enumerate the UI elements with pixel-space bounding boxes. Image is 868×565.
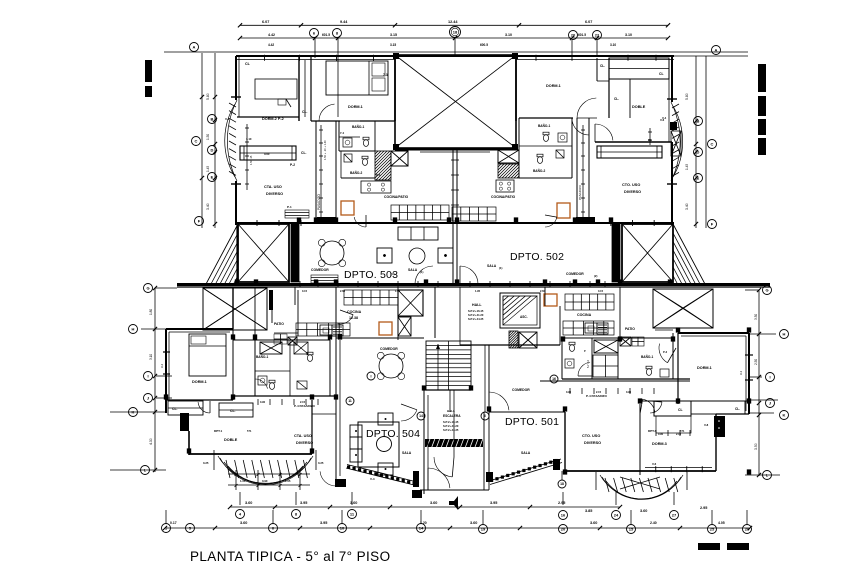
grid bubble L left (141, 466, 150, 475)
right hall hatch strip (509, 331, 518, 348)
dpto504 lower left wall (180, 413, 189, 431)
bottom dim bubbles row 2 (162, 524, 171, 533)
closet row 501 (640, 400, 749, 402)
svg-text:(1): (1) (420, 270, 423, 274)
door arc dorm1 right (577, 117, 597, 119)
bath2 top-left apt (341, 177, 375, 179)
svg-text:1.45: 1.45 (206, 166, 210, 172)
svg-text:SALA: SALA (408, 268, 418, 272)
svg-text:2.40: 2.40 (650, 521, 657, 525)
door arc doble (588, 118, 590, 135)
svg-text:DORM.1: DORM.1 (192, 380, 207, 384)
svg-text:DORM.3: DORM.3 (652, 442, 667, 446)
bottom bubble stubs (239, 492, 241, 505)
left black bar 1 (145, 60, 152, 82)
svg-text:25: 25 (710, 526, 715, 531)
elevator asc box (500, 293, 540, 328)
left belt black strip (291, 224, 299, 282)
svg-text:S.P.V.+16.45: S.P.V.+16.45 (468, 309, 484, 313)
svg-text:E: E (697, 175, 700, 180)
hip hatch left (203, 288, 267, 330)
bottom dim bubbles row 1 (236, 510, 245, 519)
shaft xbox right kitchen (498, 150, 519, 163)
svg-text:0.90: 0.90 (626, 390, 632, 394)
grid bubble H right (780, 330, 789, 339)
svg-text:3.60: 3.60 (640, 509, 647, 513)
svg-text:P-2: P-2 (290, 163, 295, 167)
window 501 right (745, 354, 753, 356)
svg-text:DPTO. 502: DPTO. 502 (510, 251, 564, 263)
svg-text:BAÑO-2: BAÑO-2 (533, 168, 545, 173)
svg-text:0.90: 0.90 (658, 432, 664, 436)
svg-text:BAÑO-1: BAÑO-1 (352, 124, 364, 129)
svg-text:3.60: 3.60 (350, 501, 357, 505)
orange door hall right (544, 294, 557, 306)
svg-text:1.50 .15: 1.50 .15 (249, 155, 253, 165)
svg-text:BAÑO-1: BAÑO-1 (641, 354, 653, 359)
cocina 501 bottom counters (563, 321, 614, 335)
ticks belt right (469, 281, 471, 287)
svg-text:COCINA: COCINA (577, 313, 592, 317)
bay arcs bottom 501 (600, 475, 683, 499)
grid bubble A right (712, 46, 721, 55)
right dimension line top block (695, 56, 697, 228)
wall below xbox (395, 148, 516, 151)
svg-text:CTO. USO: CTO. USO (582, 434, 600, 438)
svg-text:V-4: V-4 (516, 474, 521, 478)
svg-text:SALA: SALA (487, 264, 497, 268)
bay window arcs right (671, 102, 680, 181)
closet bar mid-left (240, 146, 296, 160)
door arc closet 501 (650, 401, 662, 402)
svg-text:(2): (2) (594, 274, 597, 278)
svg-text:2.95: 2.95 (558, 501, 565, 505)
belt left wall (236, 225, 238, 284)
right black bars (758, 64, 766, 92)
svg-text:BAÑO-1: BAÑO-1 (256, 354, 268, 359)
svg-text:3.15: 3.15 (390, 33, 397, 37)
svg-text:DIVERSO: DIVERSO (296, 441, 313, 445)
svg-text:DOBLE: DOBLE (224, 438, 238, 442)
svg-text:2.95: 2.95 (700, 506, 707, 510)
bottom block top wall (177, 286, 770, 288)
grid bubble F right (708, 220, 717, 229)
svg-text:5?1: 5?1 (247, 429, 252, 433)
svg-text:V-6: V-6 (652, 462, 657, 466)
right xbox strip (671, 131, 681, 156)
svg-text:1.45: 1.45 (685, 164, 689, 170)
window tick left (231, 96, 241, 98)
svg-text:ESCALERA: ESCALERA (443, 414, 461, 418)
svg-text:CL.: CL. (600, 64, 605, 68)
dorm1 walls top-left apt (394, 57, 396, 121)
svg-text:4.05: 4.05 (718, 521, 725, 525)
grid bubble C left (192, 137, 201, 146)
grid bubble D left (208, 146, 217, 155)
door arcs belt left (415, 283, 433, 285)
grid bubble K right (780, 411, 789, 420)
svg-text:601.5: 601.5 (322, 33, 330, 37)
kitchen wall 504 (397, 287, 399, 340)
svg-text:A: A (715, 47, 718, 52)
party wall ticks (451, 159, 459, 161)
svg-text:J: J (769, 400, 771, 405)
patio walls 501 (619, 287, 621, 342)
svg-text:G: G (146, 285, 149, 290)
svg-text:C: C (711, 141, 714, 146)
svg-text:0.15: 0.15 (598, 289, 604, 293)
svg-text:16: 16 (561, 512, 566, 517)
stair bottom walls (426, 389, 471, 391)
column squares (314, 217, 318, 222)
dorm1 504 bed (189, 334, 226, 376)
grid bubble H left (129, 325, 138, 334)
svg-text:1.95: 1.95 (475, 289, 481, 293)
bath 501 outer walls (561, 338, 563, 379)
svg-text:CL: CL (678, 408, 683, 412)
closet bar mid-right (597, 146, 662, 158)
elevator shaft large xbox top (395, 55, 516, 148)
svg-text:CL.: CL. (614, 97, 619, 101)
dorm2 room walls top-left (298, 57, 300, 121)
svg-text:I: I (371, 374, 372, 378)
bottom wall 504 (189, 453, 312, 455)
xbox tub 501 (594, 340, 618, 353)
svg-text:0.15: 0.15 (302, 289, 308, 293)
right belt black strip (612, 224, 620, 282)
comedor 501 walls (489, 411, 565, 413)
svg-text:2.50: 2.50 (754, 359, 758, 365)
svg-text:V-8: V-8 (704, 423, 709, 427)
svg-text:DORM.1: DORM.1 (546, 84, 561, 88)
svg-text:9.44: 9.44 (340, 20, 348, 24)
black hatch band below escalera (425, 439, 483, 447)
window left 504 (163, 351, 170, 353)
svg-text:DPT.1: DPT.1 (214, 429, 223, 433)
svg-text:11: 11 (348, 399, 352, 403)
elevator xbox hall (398, 290, 423, 316)
svg-text:DPT.3: DPT.3 (648, 429, 657, 433)
svg-text:DOBLE: DOBLE (632, 105, 646, 109)
svg-text:COMEDOR: COMEDOR (380, 347, 398, 351)
svg-text:1.00: 1.00 (240, 479, 246, 483)
grid bubble I right (766, 373, 775, 382)
black window box right (670, 122, 677, 130)
doble window bottom 501 (645, 467, 712, 469)
top dimension line 1 (240, 24, 668, 26)
svg-text:27: 27 (672, 512, 677, 517)
svg-text:600.5: 600.5 (480, 43, 488, 47)
bubble 18 sala 501 (558, 480, 566, 488)
svg-text:3.15: 3.15 (390, 43, 396, 47)
svg-text:5?1: 5?1 (680, 429, 685, 433)
dorm1 right apt walls (515, 57, 517, 121)
closet row 504 (168, 401, 203, 415)
svg-text:7-4: 7-4 (340, 131, 344, 135)
svg-text:1.05: 1.05 (285, 479, 291, 483)
svg-text:6.07: 6.07 (262, 20, 269, 24)
sofa set left sala (398, 227, 438, 240)
desk in dorm2 (255, 79, 297, 99)
patio walls 504b (269, 290, 273, 310)
right dimension line bottom block (758, 290, 760, 476)
shower 504 (294, 342, 308, 354)
doble bottom wall (595, 141, 672, 143)
svg-text:3.95: 3.95 (300, 501, 307, 505)
svg-text:3.50: 3.50 (754, 443, 758, 450)
door arc dorm1 left (319, 120, 336, 122)
grid bubble K left (129, 408, 138, 417)
svg-text:18: 18 (560, 482, 564, 486)
svg-text:COCINA/PATIO: COCINA/PATIO (491, 195, 516, 199)
svg-text:7-3: 7-3 (383, 73, 388, 77)
small xbox left kitchen (391, 151, 408, 166)
ticks pasadizo 504 (257, 399, 259, 405)
orange door hall left (379, 322, 392, 335)
svg-text:5-7 P-3: 5-7 P-3 (587, 359, 590, 368)
svg-text:3.95: 3.95 (320, 521, 327, 525)
svg-text:4.42: 4.42 (268, 43, 274, 47)
door arcs closet 504 (209, 401, 211, 413)
corridor dim ticks (320, 125, 322, 220)
door arc comedor (340, 310, 353, 315)
bed in dorm1 (326, 61, 388, 95)
mid plan bubbles (367, 372, 375, 380)
right axis line A (674, 55, 748, 57)
right belt xbox (622, 224, 673, 282)
corridor dim ticks right (582, 125, 584, 220)
walls near 504 entry (335, 287, 337, 480)
top grid bubbles (310, 29, 319, 38)
svg-text:20: 20 (561, 526, 566, 531)
top dimension line 2 (240, 37, 668, 39)
grid bubble J left (144, 394, 153, 403)
sala 504 band posts (335, 479, 346, 487)
svg-text:V-2: V-2 (160, 363, 164, 368)
svg-text:24: 24 (614, 512, 619, 517)
bath1 right apt (518, 118, 520, 146)
svg-text:3.10: 3.10 (610, 43, 616, 47)
left belt xbox (238, 224, 289, 282)
grid bubble C right (708, 140, 717, 149)
svg-text:CL.: CL. (735, 407, 740, 411)
svg-text:DIVERSO: DIVERSO (584, 441, 601, 445)
patio wall divider (232, 340, 234, 400)
doble closet band (609, 58, 669, 79)
svg-text:P-3: P-3 (663, 350, 668, 354)
svg-text:16: 16 (552, 377, 556, 381)
svg-text:BAÑO-2: BAÑO-2 (350, 170, 362, 175)
bottom dimension line 2 (165, 527, 750, 529)
top block left outer wall (235, 56, 237, 100)
svg-text:B: B (697, 118, 700, 123)
shower 501 (593, 355, 618, 377)
svg-text:A: A (193, 44, 196, 49)
sala 501 band posts (486, 472, 493, 482)
svg-text:SALA: SALA (521, 451, 531, 455)
grid bubble L right (763, 471, 772, 480)
axis line A across (164, 51, 748, 53)
svg-text:601.5: 601.5 (578, 33, 586, 37)
svg-text:0.90: 0.90 (262, 479, 268, 483)
cocina 504 top counters (344, 290, 398, 305)
pasadizo corridor walls (315, 121, 317, 223)
grid bubble B left (208, 115, 217, 124)
left dimension line bottom block (154, 288, 156, 472)
door arc kitchen left (365, 215, 367, 227)
dining table round left (320, 241, 344, 265)
svg-text:V-4: V-4 (662, 116, 667, 120)
shaft hatch right (498, 164, 519, 178)
scale bars (698, 543, 720, 550)
svg-text:P-4 PASADIZO: P-4 PASADIZO (294, 404, 315, 408)
svg-text:0.25: 0.25 (203, 461, 209, 465)
svg-text:19: 19 (481, 526, 486, 531)
speaker icon (449, 496, 458, 510)
svg-text:PLANTA TIPICA - 5° al 7° PIS: PLANTA TIPICA - 5° al 7° PISO (190, 549, 390, 564)
svg-text:5.80: 5.80 (685, 93, 689, 100)
corridor right walls (576, 118, 578, 223)
svg-text:0.17: 0.17 (170, 521, 177, 525)
svg-text:18: 18 (453, 29, 458, 34)
svg-text:COMEDOR: COMEDOR (566, 272, 584, 276)
door arc belt right (459, 266, 461, 284)
sala 501 slanted window band (489, 459, 561, 481)
dpto501 outer walls (678, 332, 749, 334)
svg-text:(1): (1) (499, 266, 502, 270)
grid bubble D right (694, 148, 703, 157)
grid bubble G right (763, 286, 772, 295)
svg-text:1.50 + .10 + 1.40: 1.50 + .10 + 1.40 (323, 140, 327, 160)
svg-text:5.80: 5.80 (206, 93, 210, 100)
svg-text:3.85: 3.85 (585, 509, 592, 513)
svg-text:3.60: 3.60 (470, 521, 477, 525)
svg-text:DPTO. 501: DPTO. 501 (505, 416, 559, 428)
svg-text:0.90: 0.90 (260, 400, 266, 404)
svg-text:DORM.1: DORM.1 (348, 105, 363, 109)
step wall bottom right (716, 413, 749, 415)
svg-text:3.30: 3.30 (754, 314, 758, 320)
svg-text:V-4: V-4 (225, 117, 230, 121)
svg-text:PATIO: PATIO (625, 327, 635, 331)
svg-text:3.10: 3.10 (505, 33, 512, 37)
svg-text:I: I (769, 374, 770, 379)
small xbox patio 501 (620, 337, 631, 346)
dpto504 outer walls (165, 329, 167, 413)
svg-text:1.50: 1.50 (206, 134, 210, 140)
grid bubble G left (144, 284, 153, 293)
svg-text:C: C (195, 138, 198, 143)
svg-text:ASC.: ASC. (520, 315, 528, 319)
bay arcs bottom 504 (218, 456, 313, 483)
svg-text:DORM.2 P-2: DORM.2 P-2 (262, 117, 284, 121)
svg-text:COMEDOR: COMEDOR (512, 388, 530, 392)
svg-text:3.95: 3.95 (490, 501, 497, 505)
svg-text:PASADIZO: PASADIZO (317, 194, 321, 210)
left dimension line top block (201, 53, 203, 228)
grid bubble A left (190, 43, 199, 52)
svg-text:3.60: 3.60 (590, 521, 597, 525)
corridor right wall lower (483, 412, 485, 490)
black box 501 (714, 416, 725, 437)
svg-text:0.60: 0.60 (264, 152, 270, 156)
svg-text:CL.: CL. (172, 407, 178, 411)
svg-text:3.40: 3.40 (206, 203, 210, 210)
svg-text:J: J (147, 395, 149, 400)
svg-text:P-1: P-1 (287, 205, 292, 209)
svg-text:S.P.V.+41.20: S.P.V.+41.20 (443, 424, 459, 428)
svg-text:4.30: 4.30 (149, 438, 153, 445)
svg-text:(3): (3) (391, 272, 395, 276)
party wall top block (452, 148, 454, 284)
entrance door arcs bottom (427, 468, 429, 490)
svg-text:P-4 PASADIZO: P-4 PASADIZO (586, 394, 607, 398)
svg-text:3.10: 3.10 (149, 354, 153, 360)
svg-text:PATIO: PATIO (274, 322, 284, 326)
kitchen counter left (391, 205, 449, 220)
corridor ticks 501 (540, 380, 690, 382)
svg-text:4.42: 4.42 (268, 33, 275, 37)
svg-text:D: D (697, 149, 700, 154)
cocina 501 (565, 294, 614, 310)
svg-text:2.60: 2.60 (340, 289, 346, 293)
svg-text:V-3: V-3 (739, 370, 743, 375)
svg-text:2.15: 2.15 (300, 400, 306, 404)
svg-text:BAÑO-1: BAÑO-1 (538, 123, 550, 128)
dim ticks above closet right (649, 128, 651, 145)
bottom dimension line 1 (230, 506, 620, 508)
svg-text:14: 14 (419, 525, 424, 530)
svg-text:CL.: CL. (302, 110, 308, 114)
bay window arcs left (227, 100, 237, 181)
grid bubble F left (195, 217, 204, 226)
small xbox patio 504 (288, 337, 297, 345)
svg-text:0.25: 0.25 (318, 461, 324, 465)
wall below hall (460, 344, 560, 346)
patio walls 504 (232, 287, 234, 340)
svg-text:0.90: 0.90 (566, 390, 572, 394)
svg-text:CL.: CL. (301, 151, 307, 155)
left wedge hatch (206, 224, 238, 284)
cocina 504 bottom counters (296, 323, 350, 336)
svg-text:CL: CL (245, 62, 251, 66)
right small xbox hall (519, 332, 537, 348)
grid bubble J right (766, 399, 775, 408)
svg-text:H: H (132, 326, 135, 331)
svg-text:3.60: 3.60 (240, 521, 247, 525)
entry door arc 504 (401, 404, 417, 410)
bath2 right apt (518, 146, 520, 178)
xbox tub 504 (260, 342, 282, 354)
left black bar 2 (145, 86, 152, 97)
toilet room 501 (569, 345, 574, 352)
top block right outer wall (671, 56, 673, 102)
ticks belt left (299, 281, 301, 287)
bay window hatch right (672, 104, 679, 108)
cta uso right bottom wall (455, 222, 674, 224)
ticks under closet 501 (655, 430, 657, 436)
dorm1 501 (677, 333, 679, 404)
svg-text:DIVERSO: DIVERSO (624, 190, 641, 194)
hall walls (434, 287, 436, 338)
cta uso diverso bottom wall (237, 222, 455, 224)
corridor end black fill (317, 217, 336, 223)
svg-text:COMEDOR: COMEDOR (311, 268, 329, 272)
top block outer top wall (236, 55, 674, 57)
window tick right (667, 98, 677, 100)
svg-text:I: I (147, 373, 148, 378)
door arc kitchen right (545, 215, 557, 217)
